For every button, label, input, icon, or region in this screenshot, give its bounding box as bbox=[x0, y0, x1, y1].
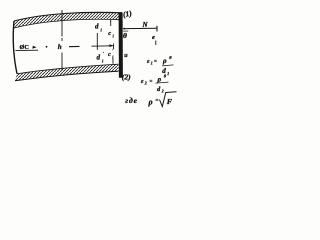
svg-text:ØС: ØС bbox=[20, 44, 29, 51]
svg-text:d: d bbox=[95, 23, 99, 31]
svg-text:d: d bbox=[157, 86, 161, 93]
svg-text:ρ: ρ bbox=[148, 98, 153, 107]
svg-text:′: ′ bbox=[112, 48, 113, 53]
svg-text:θ: θ bbox=[123, 31, 127, 40]
svg-text:i: i bbox=[112, 54, 114, 59]
svg-text:′: ′ bbox=[103, 51, 104, 56]
svg-text:ε: ε bbox=[147, 59, 150, 65]
svg-text:h: h bbox=[58, 43, 62, 51]
svg-text:F: F bbox=[167, 97, 173, 106]
svg-text:N: N bbox=[142, 21, 149, 29]
svg-text:1: 1 bbox=[151, 62, 153, 66]
svg-text:i: i bbox=[101, 28, 103, 33]
svg-text:=: = bbox=[150, 79, 153, 84]
svg-text:u: u bbox=[124, 53, 128, 59]
svg-text:=: = bbox=[154, 59, 157, 64]
svg-text:=: = bbox=[156, 99, 159, 104]
svg-text:i: i bbox=[113, 33, 115, 38]
svg-text:1: 1 bbox=[167, 72, 169, 76]
svg-text:i: i bbox=[102, 58, 104, 63]
svg-text:(1): (1) bbox=[122, 9, 133, 19]
svg-text:c: c bbox=[108, 30, 111, 37]
svg-text:d: d bbox=[97, 53, 101, 61]
svg-text:ρ: ρ bbox=[157, 75, 162, 83]
svg-text:ρ: ρ bbox=[162, 57, 167, 65]
svg-text:e: e bbox=[152, 34, 155, 41]
svg-text:где: где bbox=[125, 96, 138, 105]
svg-text:ε: ε bbox=[141, 79, 144, 85]
svg-text:2: 2 bbox=[161, 90, 164, 94]
svg-text:θ: θ bbox=[169, 55, 172, 60]
svg-text:c: c bbox=[108, 51, 111, 58]
svg-text:(2): (2) bbox=[122, 73, 131, 82]
svg-text:2: 2 bbox=[144, 82, 147, 86]
